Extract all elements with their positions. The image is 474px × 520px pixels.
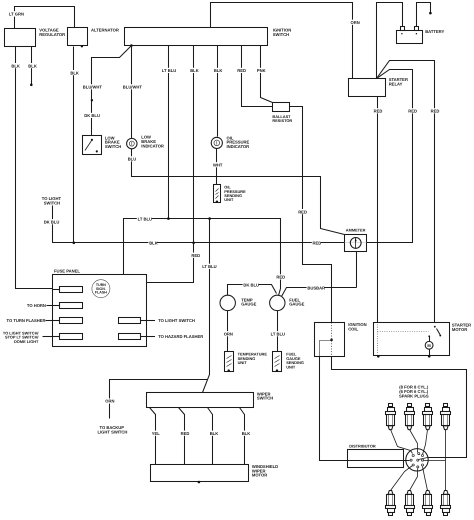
starter motor internals: feed dotted lines (378, 325, 429, 355)
svg-text:LIGHT SWITCH: LIGHT SWITCH (98, 430, 128, 435)
svg-text:LT GRN: LT GRN (9, 12, 24, 17)
label BLU/WHT (122, 84, 142, 89)
terminal dot: battery pigtail end (429, 12, 432, 15)
svg-text:DK BLU: DK BLU (84, 113, 100, 118)
label BLU (127, 156, 136, 161)
wire BLU: low brake indicator to ammeter (132, 149, 345, 235)
wire BLK: voltage regulator ground stub (31, 47, 33, 85)
label BLK (241, 431, 250, 436)
turn signal flasher (92, 280, 110, 298)
oil pressure sending unit (214, 185, 221, 203)
svg-text:BLK: BLK (214, 68, 223, 73)
wire stub: to light switch / stop lt switch / dome light (43, 336, 53, 338)
label RED (408, 108, 417, 113)
wire: plug 3 lead (423, 430, 428, 455)
fuse F2 (53, 303, 83, 309)
svg-text:MOTOR: MOTOR (452, 327, 467, 332)
wire stub: to hazard flasher (147, 336, 156, 338)
ignition coil internals (320, 323, 333, 357)
svg-text:DISTRIBUTOR: DISTRIBUTOR (349, 444, 376, 449)
label RED (180, 431, 189, 436)
label BLK (190, 68, 199, 73)
alternator output terminal dot (81, 45, 83, 47)
wire BLU/WHT: ignition switch to low brake indicator (131, 46, 133, 139)
svg-text:BATTERY: BATTERY (425, 29, 444, 34)
starter motor solenoid switch (428, 326, 441, 337)
label RED (312, 240, 321, 245)
label VOLTAGE REGULATOR (39, 28, 65, 37)
wire RED: black bus to fuse panel (147, 243, 194, 283)
label BLK (28, 63, 37, 68)
svg-text:LT BLU: LT BLU (271, 331, 285, 336)
ammeter dial (345, 238, 367, 249)
label RED (373, 108, 382, 113)
wire: ignition coil HT lead to distributor cap (332, 357, 467, 458)
fuse F1 (53, 287, 83, 293)
label BALLAST RESISTOR (272, 114, 292, 123)
low brake switch box (83, 136, 102, 155)
svg-text:SPARK PLUGS: SPARK PLUGS (399, 394, 429, 399)
wire LT BLU: ignition switch to light blue bus (168, 46, 170, 219)
spark plug 8 (441, 491, 451, 516)
label OIL PRESSURE INDICATOR (227, 135, 250, 149)
svg-text:COIL: COIL (348, 326, 358, 331)
label BLK (148, 240, 157, 245)
ground dot: starter motor left (377, 355, 380, 358)
wire: plug 7 lead (423, 467, 428, 491)
wire BLK: ignition switch to black bus (193, 46, 195, 243)
wire LT BLU: fuel gauge to sending unit (277, 311, 279, 352)
wire: plug 2 lead (410, 430, 418, 453)
svg-text:BUSBAR: BUSBAR (307, 286, 325, 291)
wire BLK: wiper switch to motor (208, 408, 213, 465)
label TEMP GAUGE (241, 297, 256, 306)
distributor box (348, 450, 404, 468)
wire: plug 6 lead (410, 469, 418, 491)
svg-text:RED: RED (181, 431, 190, 436)
svg-text:SWITCH: SWITCH (273, 32, 289, 37)
svg-text:DOME LIGHT: DOME LIGHT (14, 339, 39, 344)
svg-text:BLK: BLK (242, 431, 251, 436)
label DK BLU (84, 113, 100, 118)
fuse F6 (119, 334, 147, 340)
wire WHT: oil pressure indicator to sending unit (216, 149, 218, 185)
wire: plug 1 lead (391, 430, 413, 454)
fuse F3 (53, 318, 83, 324)
label WINDSHIELD WIPER MOTOR (252, 464, 278, 477)
label FUEL GAUGE (289, 297, 304, 306)
svg-text:SWITCH: SWITCH (105, 144, 121, 149)
fuel gauge sending unit (273, 352, 282, 372)
svg-text:BLU: BLU (128, 157, 137, 162)
label TO BACKUP LIGHT SWITCH (98, 425, 128, 435)
spark plug 3 (423, 404, 433, 430)
label IGNITION COIL (348, 322, 366, 331)
svg-text:DK BLU: DK BLU (243, 282, 259, 287)
wire: ignition coil to distributor points (320, 357, 348, 461)
label LT GRN (8, 11, 25, 17)
svg-text:YEL: YEL (152, 431, 161, 436)
temp gauge (220, 295, 235, 310)
label BLK (11, 63, 20, 68)
junction dot: LT BLU bus at ignition switch lead (167, 217, 170, 220)
label ORN (105, 398, 116, 403)
svg-text:BLK: BLK (28, 63, 37, 68)
svg-text:WHT: WHT (213, 162, 223, 167)
svg-text:SWITCH: SWITCH (44, 200, 60, 205)
svg-text:AMMETER: AMMETER (346, 228, 366, 233)
label RED (430, 108, 439, 113)
label ORN (223, 331, 233, 336)
wire: distributor center terminal link (419, 458, 428, 460)
battery BAT (397, 31, 423, 44)
ground dot: starter motor right (428, 355, 431, 358)
wire stub: to light switch (right) (147, 320, 156, 322)
wire LT BLU bus: fuse panel feed and fuel gauge feed (124, 219, 281, 296)
wire BLU/WHT: ignition switch to low brake switch (92, 46, 132, 136)
ground dot: wiper motor (198, 481, 201, 484)
low brake indicator lamp (127, 138, 137, 148)
svg-text:RED: RED (276, 275, 285, 280)
svg-text:UNIT: UNIT (238, 360, 248, 365)
battery post (negative) (401, 27, 405, 31)
junction dot: ignition switch BLK on black bus (192, 242, 195, 245)
wire DK BLU / black bus: light switch lead to ammeter (53, 206, 345, 243)
svg-text:PNK: PNK (257, 68, 266, 73)
svg-text:BLU/WHT: BLU/WHT (123, 85, 143, 90)
svg-text:RED: RED (408, 109, 417, 114)
spark plug 7 (423, 491, 433, 516)
svg-text:LT BLU: LT BLU (162, 68, 176, 73)
svg-text:LT BLU: LT BLU (138, 216, 152, 221)
label LOW BRAKE INDICATOR (141, 135, 164, 149)
svg-text:RED: RED (237, 68, 246, 73)
ignition coil box (315, 323, 345, 357)
starter motor box (374, 323, 450, 356)
wire: battery positive pigtail (417, 3, 431, 27)
wire BLK: wiper switch to motor (2) (240, 408, 245, 465)
label TEMPERATURE SENDING UNIT (238, 352, 268, 365)
spark plug 2 (405, 404, 415, 430)
svg-text:GAUGE: GAUGE (289, 302, 304, 307)
fuel gauge (270, 295, 285, 310)
wire: battery to starter relay (377, 3, 403, 79)
svg-text:FUSE PANEL: FUSE PANEL (54, 268, 80, 273)
wire RED: ignition switch to ballast resistor (242, 46, 273, 107)
svg-text:ORN: ORN (224, 331, 233, 336)
temperature sending unit (225, 352, 234, 372)
wire: plug 5 lead (391, 466, 413, 491)
oil pressure indicator lamp (211, 137, 222, 148)
label LT BLU (270, 331, 285, 336)
label BUSBAR (307, 285, 326, 290)
svg-text:BLK: BLK (210, 431, 219, 436)
voltage regulator VR (5, 29, 36, 47)
label ORN (350, 20, 360, 25)
label DK BLU (43, 219, 59, 224)
svg-text:RED: RED (374, 109, 383, 114)
svg-text:LT BLU: LT BLU (202, 264, 216, 269)
svg-text:DK BLU: DK BLU (44, 219, 60, 224)
label BLU/WHT (82, 84, 102, 89)
svg-text:TO HAZARD FLASHER: TO HAZARD FLASHER (158, 334, 203, 339)
wire LT BLU: accessory feed to wiper switch (203, 219, 210, 393)
svg-text:INDICATOR: INDICATOR (141, 143, 164, 148)
wire RED: ballast resistor to busbar node and ignition coil (290, 107, 332, 323)
wire ORN: temp gauge to sending unit (227, 311, 229, 352)
junction dot: ignition switch BLU/WHT feed (130, 44, 133, 47)
busbar wire (282, 288, 357, 297)
wire PNK: ignition switch to ballast resistor (261, 46, 273, 103)
wire RED: wiper switch to motor (179, 408, 185, 465)
svg-text:INDICATOR: INDICATOR (227, 144, 250, 149)
fuse F4 (53, 334, 83, 340)
terminal dot: BLK stub end (30, 84, 33, 87)
wire LT GRN: voltage regulator to alternator top link (15, 7, 75, 29)
label LT BLU (201, 264, 216, 269)
wire DK BLU: temp gauge to fuel gauge (228, 285, 277, 296)
wiper switch box (147, 393, 254, 408)
svg-text:BLU/WHT: BLU/WHT (83, 85, 103, 90)
spark plug 6 (405, 491, 415, 516)
battery post (positive) (415, 27, 419, 31)
starter relay box (349, 79, 386, 97)
svg-text:TO HORN: TO HORN (27, 303, 46, 308)
label WIPER SWITCH (257, 391, 273, 400)
label IGNITION SWITCH (273, 27, 291, 37)
label RED (191, 253, 200, 258)
label (8 FOR 8 CYL.) (6 FOR 6 CYL.) SPARK PLUGS (399, 384, 429, 398)
wire ORN: to backup light switch (110, 380, 208, 419)
wire stub: to horn (47, 305, 53, 307)
svg-text:RED: RED (298, 209, 307, 214)
svg-text:FLASH: FLASH (95, 291, 107, 295)
svg-text:MOTOR: MOTOR (252, 473, 267, 478)
svg-text:TO TURN FLASHER: TO TURN FLASHER (7, 318, 46, 323)
junction dot: LT BLU bus at wiper feed (208, 217, 211, 220)
spark plug 4 (441, 404, 451, 430)
svg-text:TO LIGHT SWITCH: TO LIGHT SWITCH (158, 318, 195, 323)
alternator ALT (68, 28, 88, 46)
label BLK (70, 70, 79, 75)
label WHT (212, 162, 223, 167)
distributor cap (406, 449, 428, 471)
wire: points lead inside distributor (348, 460, 410, 462)
svg-text:UNIT: UNIT (224, 197, 234, 202)
svg-text:ORN: ORN (351, 20, 360, 25)
wire: plug 4 and plug 8 lead (424, 430, 446, 491)
label LOW BRAKE SWITCH (105, 135, 121, 149)
svg-text:ORN: ORN (105, 399, 114, 404)
svg-text:RED: RED (431, 109, 440, 114)
wire BLK: alternator to black bus (73, 47, 75, 243)
wire YEL: wiper switch to motor (150, 408, 156, 465)
wire ORN: ignition switch feed from starter relay (211, 3, 353, 79)
label STARTER MOTOR (452, 323, 471, 332)
svg-text:RED: RED (313, 241, 322, 246)
label BLK (209, 431, 218, 436)
svg-text:BLK: BLK (190, 68, 199, 73)
label BLK (213, 68, 222, 73)
distributor cap terminals (410, 453, 424, 468)
spark plug 5 (386, 491, 396, 516)
starter motor M armature (425, 337, 433, 357)
low brake switch contacts (85, 139, 98, 153)
junction dot: DK BLU splice (91, 99, 93, 101)
label TO LIGHT SWITCH / STOP LT SWITCH / DOME LIGHT (3, 330, 40, 343)
label STARTER RELAY (389, 77, 408, 87)
svg-text:BLK: BLK (149, 241, 158, 246)
label RED (298, 209, 307, 214)
wire RED: starter relay to starter motor (left) (377, 97, 379, 323)
label LT BLU (161, 68, 176, 73)
ballast resistor box (273, 103, 290, 112)
label OIL PRESSURE SENDING UNIT (224, 185, 246, 203)
label FUEL GAUGE SENDING UNIT (286, 352, 304, 370)
svg-text:M: M (427, 343, 431, 348)
label RED (237, 68, 246, 73)
svg-text:SWITCH: SWITCH (257, 396, 273, 401)
svg-text:RESISTOR: RESISTOR (272, 118, 292, 123)
svg-text:ALTERNATOR: ALTERNATOR (91, 27, 119, 32)
fuse panel box (53, 275, 147, 347)
svg-text:BLK: BLK (70, 70, 79, 75)
label TO LIGHT SWITCH (42, 196, 62, 206)
label LT BLU (137, 216, 152, 221)
wire RED: starter relay to ammeter (367, 70, 413, 243)
ignition switch box (125, 28, 268, 46)
svg-text:UNIT: UNIT (286, 364, 296, 369)
svg-text:REGULATOR: REGULATOR (39, 32, 65, 37)
fuse F5 (119, 318, 147, 324)
svg-text:RED: RED (191, 253, 200, 258)
svg-text:RELAY: RELAY (389, 82, 403, 87)
label PNK (256, 68, 265, 73)
label YEL (151, 431, 160, 436)
wire stub: to turn flasher (46, 320, 53, 322)
label RED (276, 274, 285, 279)
spark plug 1 (386, 404, 396, 430)
wire RED: starter relay to starter motor (right) (377, 61, 435, 323)
wire BLK: voltage regulator to fuse panel (16, 47, 53, 289)
svg-text:BLK: BLK (11, 63, 20, 68)
wire BLK: ignition switch to oil pressure indicator (217, 46, 219, 137)
junction dot: alternator BLK on black bus (73, 242, 76, 245)
svg-text:GAUGE: GAUGE (241, 302, 256, 307)
ammeter box (345, 235, 367, 252)
label DK BLU (243, 282, 259, 287)
wire: ammeter to busbar (356, 252, 358, 288)
windshield wiper motor box (151, 465, 249, 482)
